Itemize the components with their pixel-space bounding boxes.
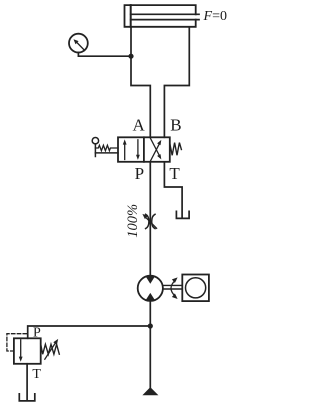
valve return spring: [170, 143, 182, 156]
tank symbol relief: [19, 394, 35, 401]
tank triangle main: [142, 387, 158, 395]
wire cylinder left port to valve A: [131, 27, 150, 138]
wire valve T to tank: [164, 162, 182, 218]
valve divider: [143, 137, 145, 162]
wire pump down to tank triangle: [149, 301, 151, 388]
valve actuator lower line: [95, 152, 118, 154]
relief valve internal arrow: [20, 340, 22, 357]
svg-text:A: A: [132, 115, 145, 134]
relief valve spring: [41, 344, 60, 354]
valve roller actuator: [92, 138, 98, 144]
tank symbol at T: [176, 211, 189, 218]
cylinder body: [125, 5, 196, 27]
svg-text:P: P: [135, 164, 144, 183]
relief valve body: [14, 338, 41, 364]
valve left position down arrow: [137, 140, 139, 156]
throttle adjust arrow: [146, 217, 157, 228]
pressure gauge: [69, 34, 88, 53]
pump triangle bottom: [146, 293, 155, 300]
motor shaft: [163, 285, 182, 289]
svg-text:T: T: [169, 164, 180, 183]
valve U1 body: [118, 137, 170, 162]
valve crossed arrow A to T: [150, 138, 159, 155]
wire relief T to tank: [26, 364, 28, 400]
cylinder rod: [131, 14, 199, 19]
svg-text:P: P: [33, 326, 41, 341]
pump P1 circle: [138, 276, 163, 301]
pump triangle top: [146, 276, 155, 283]
junction node bottom: [148, 323, 153, 328]
rotation arrow: [171, 280, 175, 296]
wire gauge to junction: [78, 53, 131, 57]
relief adjust arrow: [45, 343, 55, 359]
electric motor M1: [182, 275, 209, 302]
cylinder piston: [130, 5, 132, 27]
svg-text:T: T: [32, 367, 41, 382]
wire cylinder right port to valve B: [164, 27, 189, 138]
valve left position up arrow: [124, 144, 126, 160]
valve crossed arrow P to B: [150, 145, 159, 162]
junction node: [128, 54, 133, 59]
svg-text:F=0: F=0: [203, 9, 227, 24]
wire junction to relief valve P: [28, 326, 151, 338]
relief pilot dashed line: [7, 334, 27, 351]
wire valve P to pump: [149, 162, 151, 276]
throttle valve arcs: [146, 214, 155, 228]
svg-text:B: B: [170, 115, 181, 134]
valve actuator spring line: [95, 145, 118, 150]
svg-text:100%: 100%: [125, 204, 141, 238]
